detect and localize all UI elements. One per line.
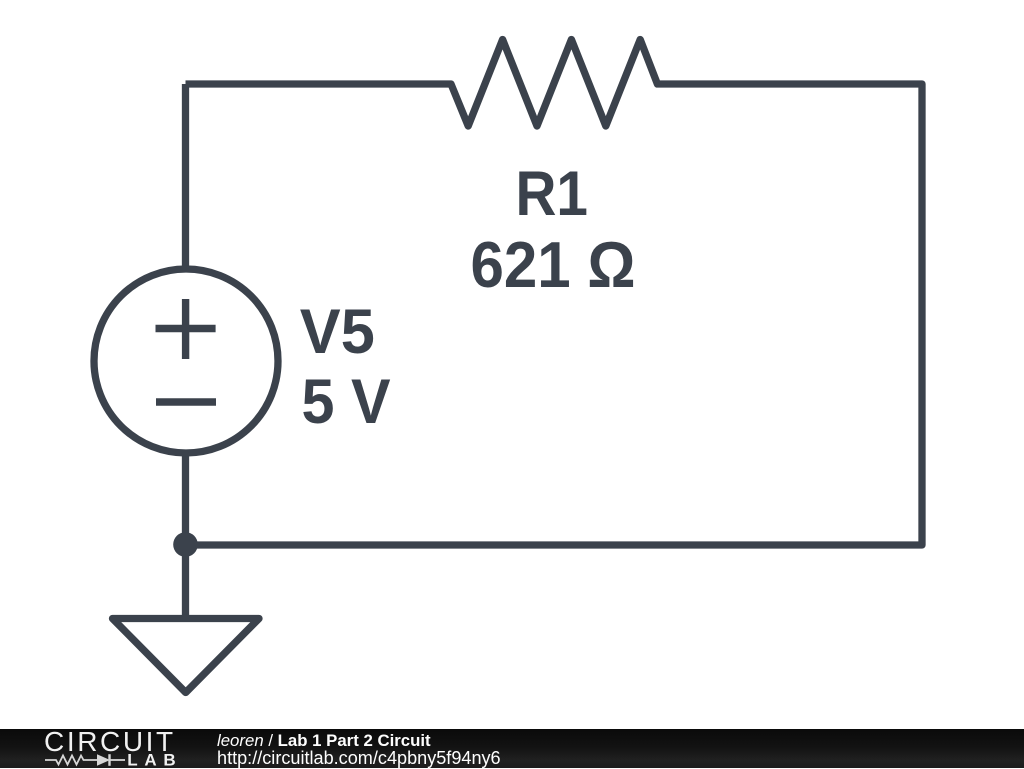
wire: left vertical from top-left corner down to V5 top terminal [182, 84, 189, 272]
svg-text:LAB: LAB [127, 751, 182, 769]
voltage source V5 circle [94, 269, 278, 453]
logo diode [97, 754, 110, 766]
logo resistor-diode squiggle [45, 756, 125, 765]
V5 plus sign [156, 299, 216, 359]
footer bar [0, 729, 1024, 768]
svg-text:V5: V5 [300, 297, 375, 367]
attribution line 1: author / title [217, 731, 431, 751]
CircuitLab logo wordmark [0, 727, 200, 768]
resistor R1 (zigzag in top wire) plus top, right and bottom wires of the loop [186, 40, 923, 546]
svg-text:R1: R1 [515, 159, 588, 229]
node junction dot [173, 532, 198, 557]
V5 minus sign [156, 398, 216, 405]
attribution line 2: url [217, 748, 501, 769]
wire: V5 bottom terminal down through node to ground [182, 450, 189, 618]
svg-text:5 V: 5 V [302, 367, 391, 437]
svg-text:621 Ω: 621 Ω [471, 229, 636, 301]
ground symbol triangle [113, 619, 260, 693]
